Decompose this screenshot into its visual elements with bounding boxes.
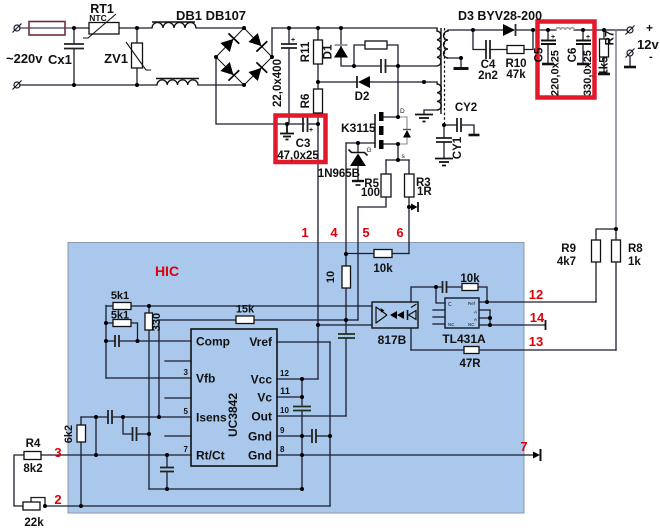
wire UC3842 Vref pin line xyxy=(277,341,330,343)
wire CY2 right lead down to ground bar xyxy=(461,125,474,134)
wire CY1 top lead xyxy=(443,125,445,138)
wire Vcc/Vc bypass vertical xyxy=(301,379,303,405)
svg-text:47R: 47R xyxy=(459,358,481,370)
wire snubber cap right lead xyxy=(385,65,398,67)
capacitor CY1 xyxy=(436,138,452,142)
svg-text:10k: 10k xyxy=(460,273,480,285)
wire K3115 gate lead xyxy=(346,142,375,144)
wire Isens cap1 to cap2 branch xyxy=(112,416,191,418)
svg-text:R7: R7 xyxy=(605,31,617,46)
svg-text:R8: R8 xyxy=(628,243,643,255)
wire R3 bottom lead xyxy=(408,197,410,207)
wire DC- node to C3 left plate xyxy=(287,123,304,125)
svg-text:3: 3 xyxy=(184,368,189,377)
svg-text:C: C xyxy=(448,302,452,308)
resistor R10 xyxy=(507,46,524,54)
svg-text:Ref: Ref xyxy=(468,301,476,306)
zener 1N965B xyxy=(349,150,368,186)
svg-text:10: 10 xyxy=(325,271,337,283)
IC UC3842 box xyxy=(191,329,277,466)
wire Cx1 bottom lead xyxy=(73,49,75,86)
wire secondary top to D3 anode xyxy=(448,29,503,31)
wire snubber cap left lead xyxy=(354,65,381,67)
wire R7 top lead xyxy=(603,30,605,39)
resistor 15k xyxy=(236,316,254,324)
wire Gnd9 cap to Vref riser xyxy=(316,435,330,437)
svg-text:5: 5 xyxy=(184,407,189,416)
capacitor ramp xyxy=(338,334,355,338)
transformer T1 aux winding xyxy=(437,84,441,110)
svg-text:6k2: 6k2 xyxy=(63,425,75,443)
wire D1 top lead xyxy=(340,28,342,44)
svg-text:R4: R4 xyxy=(26,438,41,450)
svg-text:13: 13 xyxy=(529,334,543,349)
svg-text:Comp: Comp xyxy=(196,335,230,349)
wire R6 bottom lead xyxy=(317,113,319,124)
svg-text:1N965B: 1N965B xyxy=(318,168,360,180)
wire C22 bottom lead xyxy=(288,48,290,124)
resistor 10 gate xyxy=(342,266,351,288)
svg-text:-: - xyxy=(649,51,653,63)
ground bar secondary winding xyxy=(454,67,469,70)
wire R11 bottom to D2 node xyxy=(317,64,319,89)
wire 10 resistor top lead xyxy=(345,254,347,266)
wire internal ground line bottom xyxy=(149,488,302,490)
svg-text:+: + xyxy=(551,34,555,41)
wire 10k upper right lead to node 6 xyxy=(392,253,409,255)
capacitor Isens filter 2 xyxy=(133,427,137,441)
wire node 14 line to terminal bar xyxy=(490,324,545,326)
wire 10 resistor bottom lead xyxy=(345,288,347,320)
wire C5 bottom lead to ground bar xyxy=(547,44,549,63)
wire C4 branch down xyxy=(473,30,486,50)
svg-text:D: D xyxy=(400,108,405,115)
resistor 5k1 upper xyxy=(113,303,131,310)
transformer T1 secondary winding xyxy=(444,30,449,58)
svg-text:C6: C6 xyxy=(567,48,579,63)
wire AC live: terminal to fuse to junction xyxy=(20,27,74,29)
svg-text:47,0x25: 47,0x25 xyxy=(277,150,319,162)
svg-text:11: 11 xyxy=(280,386,291,397)
capacitor C6 xyxy=(576,41,591,45)
wire R4 left lead loop to 22k xyxy=(14,455,24,506)
svg-text:12: 12 xyxy=(280,369,289,378)
wire 15k line from Isens riser to out node xyxy=(159,319,346,321)
svg-text:CY2: CY2 xyxy=(455,102,477,114)
wire comp cap lead xyxy=(436,286,443,288)
svg-text:D3 BYV28-200: D3 BYV28-200 xyxy=(458,9,542,23)
wire 5k1 upper right lead to node xyxy=(131,305,149,307)
svg-text:DB1 DB107: DB1 DB107 xyxy=(176,8,246,23)
svg-text:C3: C3 xyxy=(296,138,311,150)
svg-text:14: 14 xyxy=(530,310,545,325)
bridge diode top-right xyxy=(248,32,267,51)
capacitor Vc bypass xyxy=(293,407,311,411)
svg-text:22k: 22k xyxy=(24,517,44,529)
snubber resistor primary xyxy=(365,41,387,49)
svg-text:Vfb: Vfb xyxy=(196,372,215,386)
wire C6 top lead xyxy=(582,30,584,40)
svg-text:NC: NC xyxy=(468,322,475,327)
resistor R9 xyxy=(592,240,601,262)
wire R8 top lead xyxy=(615,229,617,240)
snubber capacitor primary xyxy=(381,59,386,73)
svg-text:2: 2 xyxy=(54,492,61,507)
wire TL431 Ref pin line xyxy=(479,301,487,303)
ground bar CY2 xyxy=(469,134,480,137)
resistor R7 xyxy=(600,39,609,57)
input terminal top xyxy=(13,24,22,33)
wire UC3842 Vfb pin line to divider rail xyxy=(106,377,191,379)
svg-text:HIC: HIC xyxy=(155,263,179,279)
resistor 6k2 xyxy=(77,425,86,442)
wire Isens pin line xyxy=(81,416,108,418)
svg-text:Isens: Isens xyxy=(196,411,227,425)
wire choke top to bridge top vertex xyxy=(196,27,244,29)
svg-text:330: 330 xyxy=(151,313,163,331)
wire drain line: snubber node down to K3115 drain xyxy=(397,66,399,117)
svg-text:100: 100 xyxy=(361,187,380,199)
wire 330 top lead xyxy=(148,306,150,313)
wire Vc bypass cap bottom xyxy=(301,411,303,489)
svg-text:817B: 817B xyxy=(378,333,407,347)
capacitor Cx1 xyxy=(64,44,84,49)
wire Isens riser xyxy=(158,320,160,417)
wire ramp cap top lead xyxy=(345,320,347,334)
svg-text:Vc: Vc xyxy=(257,391,272,405)
wire Rt/Ct cap top lead xyxy=(166,455,168,467)
svg-text:1k5: 1k5 xyxy=(599,56,611,76)
svg-text:7: 7 xyxy=(184,445,189,454)
optocoupler led arrows xyxy=(390,311,397,319)
resistor R5 xyxy=(381,174,391,197)
wire bridge left vertex to DC- node xyxy=(216,57,287,124)
wire node3 riser xyxy=(95,417,97,455)
svg-text:+: + xyxy=(646,21,653,35)
wire C5 node to filter choke xyxy=(548,29,556,31)
resistor 330 xyxy=(145,313,153,330)
svg-text:R11: R11 xyxy=(300,41,312,62)
wire D2 anode line from aux winding xyxy=(370,81,437,83)
wire UC3842 Gnd9 pin line xyxy=(277,435,312,437)
input terminal bottom xyxy=(13,81,22,90)
choke L1 bottom winding xyxy=(157,80,198,85)
wire R3 bottom to sense-ground arrow xyxy=(409,206,412,208)
IC TL431A box xyxy=(445,298,479,328)
node 14 terminal bar xyxy=(545,320,547,330)
bridge diode bottom-right xyxy=(248,62,267,81)
svg-text:+: + xyxy=(309,127,313,134)
svg-text:15k: 15k xyxy=(236,304,255,316)
wire ZV1 bottom lead xyxy=(136,68,138,85)
wire TL431 anode stubs right xyxy=(479,309,490,311)
diode D3 xyxy=(503,24,516,36)
bridge diode bottom-left xyxy=(220,61,239,80)
capacitor C5 xyxy=(541,41,556,45)
optocoupler phototransistor xyxy=(376,307,387,324)
resistor 47R xyxy=(464,347,479,354)
capacitor Rt/Ct xyxy=(160,468,174,472)
varistor ZV1 xyxy=(126,42,151,70)
wire UC3842 Gnd8 / node 7 line xyxy=(277,454,533,456)
wire node 4: gate line down into HIC xyxy=(345,143,347,254)
svg-text:CY1: CY1 xyxy=(452,136,464,159)
wire C3 right plate to R6 bottom node xyxy=(309,123,318,125)
resistor 5k1 lower xyxy=(113,320,131,327)
wire zener top lead xyxy=(357,143,359,152)
highlight box C3 xyxy=(276,116,326,163)
svg-text:10: 10 xyxy=(280,406,289,415)
wire aux winding bottom to ground xyxy=(424,110,437,114)
ground CY1 xyxy=(435,159,453,166)
highlight box C5 C6 xyxy=(538,22,595,98)
svg-text:1: 1 xyxy=(301,225,308,240)
wire ZV1 top lead xyxy=(136,28,138,43)
svg-text:12v: 12v xyxy=(637,37,659,52)
ground aux winding xyxy=(415,115,433,122)
wire +12v sense line down to R8/R9 xyxy=(615,30,617,229)
svg-text:A: A xyxy=(474,310,477,315)
resistor R11 xyxy=(314,40,323,64)
svg-text:8: 8 xyxy=(280,445,285,454)
svg-text:Cx1: Cx1 xyxy=(48,52,72,67)
wire TL431 cathode stub xyxy=(436,287,445,303)
fuse FU1 xyxy=(29,22,65,36)
wire 5k1 upper left lead xyxy=(106,305,113,307)
wire R9 bottom to node 12 line xyxy=(595,262,597,302)
svg-text:~220v: ~220v xyxy=(6,51,43,66)
svg-text:10k: 10k xyxy=(373,263,393,275)
output terminal minus xyxy=(626,49,635,58)
capacitor C3 xyxy=(303,117,308,132)
wire node 12 line to TL431 Ref xyxy=(487,301,596,303)
svg-text:330,0x25: 330,0x25 xyxy=(582,50,594,96)
wire R7 bottom lead to ground bar xyxy=(603,57,605,73)
svg-text:ZV1: ZV1 xyxy=(104,51,128,66)
svg-text:C5: C5 xyxy=(534,47,546,62)
wire R5 bottom to node 5 line xyxy=(358,197,386,207)
wire 6k2 bottom lead xyxy=(80,442,82,506)
wire DC+ rail to transformer primary top xyxy=(272,27,437,29)
wire 6k2 top lead xyxy=(80,417,82,425)
wire Cx1 top lead xyxy=(73,28,75,44)
wire node 2 line from 22k wiper to Vref riser xyxy=(45,505,330,507)
wire node 1: C3/Vcc line down into HIC xyxy=(317,124,319,379)
wire 10k to Ref node xyxy=(478,287,487,302)
wire UC3842 Out pin line xyxy=(277,415,346,417)
svg-text:1R: 1R xyxy=(417,186,432,198)
wire aux winding top lead xyxy=(436,82,438,84)
ground primary DC- xyxy=(280,124,294,140)
svg-text:220,0x25: 220,0x25 xyxy=(550,50,562,96)
wire C6 node to R7 node xyxy=(583,29,604,31)
svg-text:12: 12 xyxy=(529,287,543,302)
output terminal plus xyxy=(626,26,635,35)
diode D1 xyxy=(334,45,348,58)
wire source node to R5/R3 tops xyxy=(386,159,409,161)
wire Rt/Ct cap bottom lead xyxy=(166,472,168,490)
wire opto LED cathode riser xyxy=(411,287,436,302)
filter choke secondary xyxy=(556,28,574,30)
ground bar C5 xyxy=(542,63,554,66)
potentiometer 22k xyxy=(23,502,40,510)
svg-text:G: G xyxy=(367,147,372,154)
svg-text:TL431A: TL431A xyxy=(442,332,486,346)
ground bar C6 xyxy=(577,63,589,66)
capacitor Gnd9 xyxy=(312,429,316,443)
wire 5k1 lower left lead xyxy=(106,322,113,324)
resistor 10k upper xyxy=(374,250,392,258)
wire snubber node to primary bottom xyxy=(398,65,437,67)
wire bridge right vertex to DC+ rail xyxy=(271,28,273,57)
svg-text:K3115: K3115 xyxy=(341,121,376,135)
wire 10k upper left lead xyxy=(346,253,374,255)
svg-text:UC3842: UC3842 xyxy=(226,393,240,437)
svg-text:NC: NC xyxy=(448,322,455,327)
wire AC neutral rail: terminal to bridge bottom vertex xyxy=(20,84,157,86)
wire choke bottom to bridge bottom vertex xyxy=(198,84,244,86)
wire comp cap to 10k xyxy=(447,286,463,288)
svg-text:R6: R6 xyxy=(300,94,312,109)
wire R11 top lead xyxy=(317,28,319,40)
svg-text:Gnd: Gnd xyxy=(248,449,272,463)
optocoupler 817B box xyxy=(372,302,418,328)
HIC block xyxy=(68,243,524,514)
wire cap2 right lead xyxy=(137,433,150,435)
wire node 5 line down into HIC xyxy=(357,207,359,320)
wire RT1 to choke top xyxy=(119,27,152,29)
wire CY1 bottom lead to ground xyxy=(443,142,445,158)
svg-text:5k1: 5k1 xyxy=(111,290,129,302)
svg-text:3: 3 xyxy=(54,445,61,460)
wire snubber resistor right lead xyxy=(387,45,398,66)
node 7 terminal arrow xyxy=(533,449,541,461)
svg-text:+: + xyxy=(291,37,295,44)
wire node 6 line down into HIC xyxy=(408,207,410,254)
svg-text:Vref: Vref xyxy=(249,335,273,349)
wire R5 top lead xyxy=(385,160,387,174)
wire node 3 Rt/Ct line from R4 xyxy=(41,454,191,456)
capacitor CY2 xyxy=(457,118,461,132)
wire R7 node to +12v terminal xyxy=(604,29,627,31)
resistor R8 xyxy=(612,240,621,262)
diode D2 xyxy=(357,76,370,88)
resistor R4 xyxy=(24,452,41,460)
bridge diode top-left xyxy=(220,33,239,52)
wire UC3842 spare pin stub upper xyxy=(165,360,191,362)
svg-text:D2: D2 xyxy=(355,91,370,103)
ground bar minus terminal xyxy=(624,66,636,69)
wire feedback divider rail xyxy=(105,306,107,379)
wire K3115 drain lead xyxy=(383,116,398,118)
wire opto emitter line to node 1 xyxy=(318,324,372,326)
svg-text:D1: D1 xyxy=(323,44,335,59)
capacitor TL431 comp xyxy=(443,281,447,293)
wire R10 right lead up to D3 cathode xyxy=(524,30,533,50)
wire D3 cathode to C5 xyxy=(516,29,548,31)
svg-text:R9: R9 xyxy=(561,243,576,255)
wire 47R to R8 bottom xyxy=(479,349,616,351)
svg-text:22,0x400: 22,0x400 xyxy=(272,59,284,107)
optocoupler led diode xyxy=(408,304,417,320)
svg-text:6: 6 xyxy=(396,225,403,240)
svg-text:4k7: 4k7 xyxy=(557,256,576,268)
wire Isens filter cap2 branch xyxy=(123,417,133,434)
wire -12v terminal lead to ground bar xyxy=(629,56,631,66)
wire zener anode lead to ground bar xyxy=(357,166,359,181)
svg-text:5: 5 xyxy=(362,225,369,240)
sense ground arrow xyxy=(411,202,418,212)
wire node 13 line through 47R to opto anode xyxy=(411,349,464,351)
transformer T1 core xyxy=(440,28,442,114)
transformer T1 primary winding xyxy=(437,28,441,66)
svg-text:Rt/Ct: Rt/Ct xyxy=(196,449,225,463)
wire K3115 source lead xyxy=(383,144,398,160)
svg-text:9: 9 xyxy=(280,426,285,435)
wire D1 bottom lead to snubber xyxy=(341,47,354,67)
svg-text:Out: Out xyxy=(251,410,272,424)
svg-text:5k1: 5k1 xyxy=(111,310,129,322)
wire R8 bottom to node 13 line xyxy=(615,262,617,350)
wire secondary bottom lead to ground bar xyxy=(448,58,461,67)
wire 5k1 lower right lead down to comp line xyxy=(131,323,138,341)
svg-text:Vcc: Vcc xyxy=(251,373,273,387)
wire filter choke to C6 node xyxy=(574,29,583,31)
wire D2 cathode to R11/R6 node xyxy=(318,81,357,83)
wire Vref riser down to node2 line xyxy=(329,342,331,506)
resistor R6 xyxy=(314,89,323,113)
wire snubber resistor left lead xyxy=(354,45,365,66)
wire R9 top branch xyxy=(596,229,616,240)
bridge DB1 diamond frame xyxy=(216,28,272,85)
wire 22k wiper arm xyxy=(31,498,45,507)
wire node5 to 15k line corner xyxy=(346,319,358,321)
wire R3 top lead xyxy=(408,160,410,174)
thermistor RT1 xyxy=(83,14,119,38)
choke L1 top winding xyxy=(152,23,196,29)
svg-text:4: 4 xyxy=(330,225,338,240)
wire ramp cap bottom to Out pin line xyxy=(345,338,347,416)
ground bar R7 xyxy=(598,73,610,76)
capacitor C2 22,0x400 xyxy=(281,44,297,48)
wire opto LED anode drop to 47R line xyxy=(410,328,412,350)
svg-text:47k: 47k xyxy=(506,69,526,81)
svg-text:2n2: 2n2 xyxy=(478,70,498,82)
wire opto collector line from divider node xyxy=(149,305,372,307)
capacitor comp xyxy=(115,335,119,347)
wire C4 to R10 xyxy=(490,49,507,51)
resistor R3 xyxy=(405,174,415,197)
wire UC3842 Comp pin line xyxy=(119,340,191,342)
wire UC3842 Vc pin line xyxy=(277,396,302,398)
svg-text:Gnd: Gnd xyxy=(248,430,272,444)
wire 330 bottom lead down to ground line xyxy=(148,330,150,489)
capacitor Isens filter 1 xyxy=(108,410,112,424)
wire C5 top lead xyxy=(547,30,549,40)
svg-text:1k: 1k xyxy=(628,256,641,268)
svg-text:+: + xyxy=(586,34,590,41)
svg-text:NTC: NTC xyxy=(89,13,106,23)
wire transformer shield line to CY node xyxy=(444,124,457,126)
resistor 10k TL431 xyxy=(462,284,478,291)
wire TL431 anode tie vertical xyxy=(489,310,491,325)
wire UC3842 Vcc pin line to node 1 xyxy=(277,378,318,380)
wire comp cap left lead xyxy=(106,340,115,342)
wire UC3842 spare pin stub middle xyxy=(165,397,191,399)
wire TL431 nc stubs left xyxy=(433,309,445,311)
wire UC3842 spare pin stub lower xyxy=(165,435,191,437)
transistor K3115 mosfet xyxy=(367,108,412,160)
